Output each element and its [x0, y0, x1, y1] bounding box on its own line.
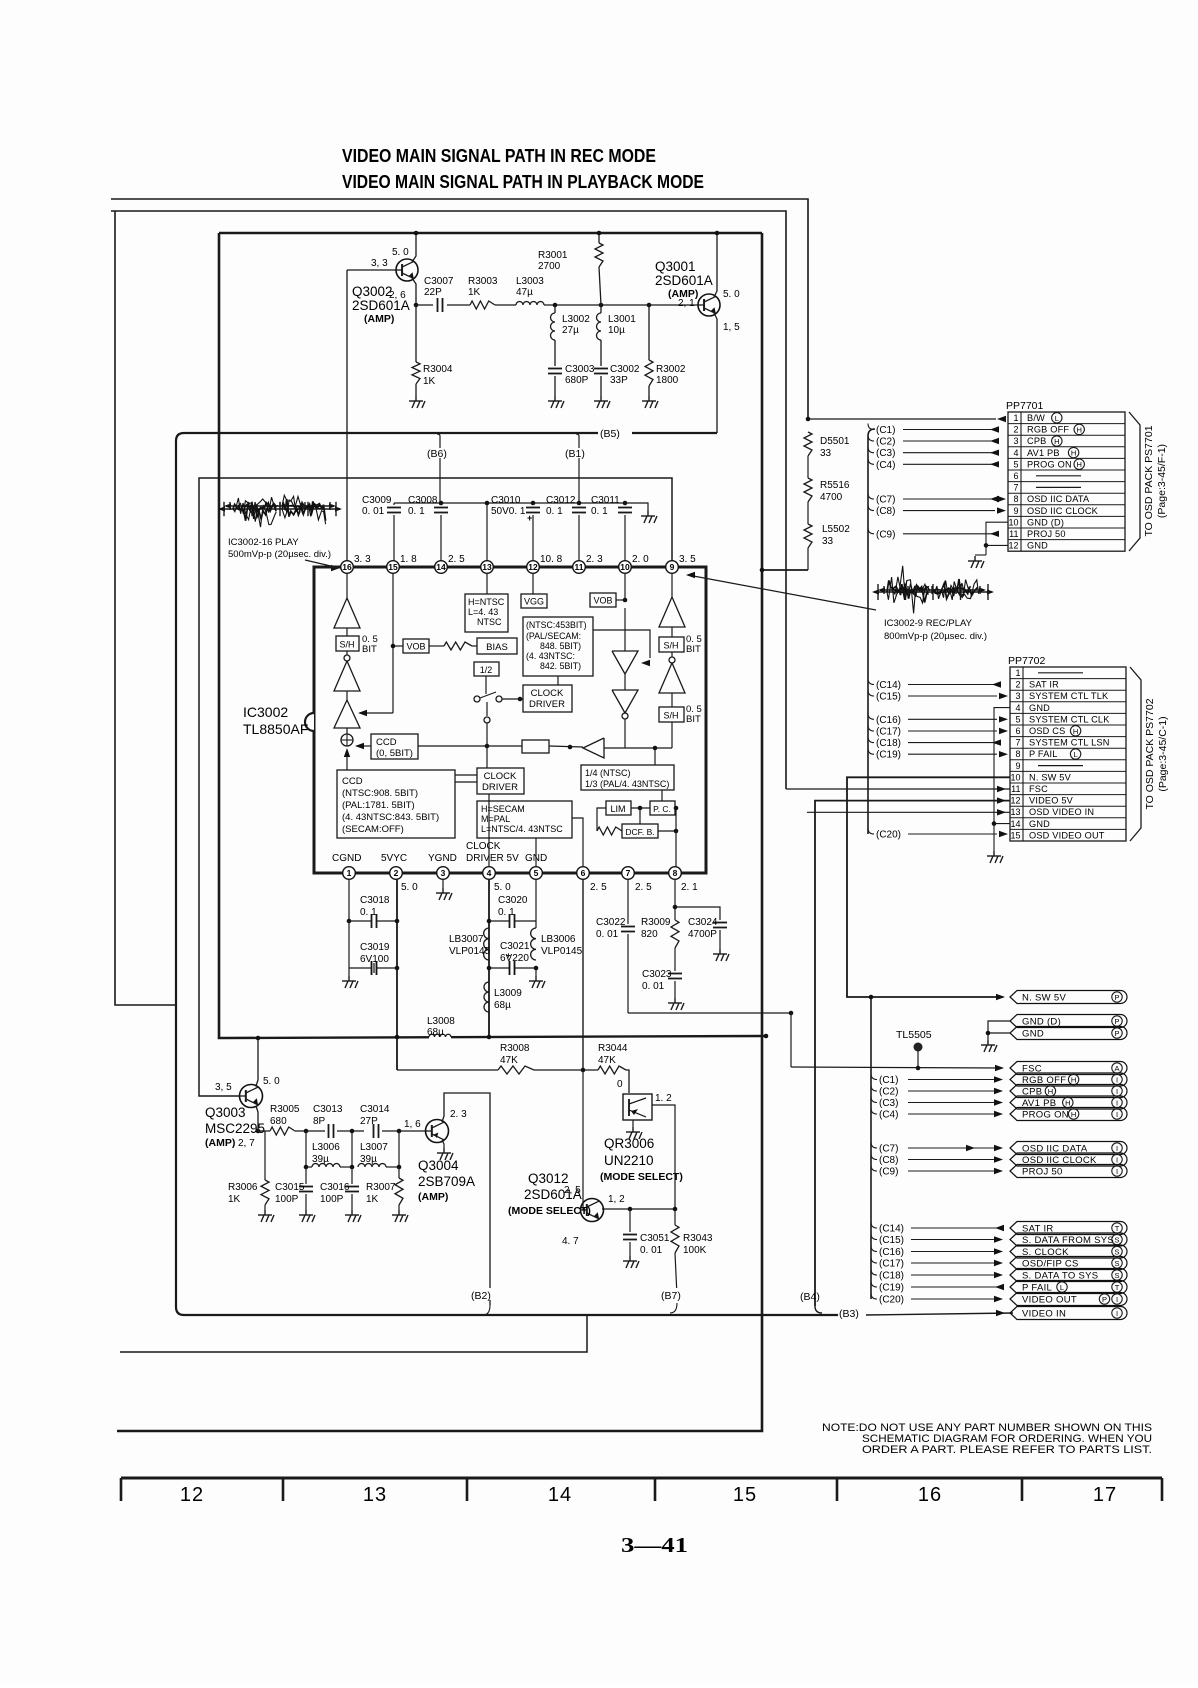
bracket PP7702: [1130, 667, 1141, 841]
wire 453BIT box to inverter arrow: [593, 630, 650, 658]
wire switch to clock driver right: [502, 698, 523, 700]
svg-text:9: 9: [1015, 761, 1020, 771]
wire bottom left rail 1: [120, 1315, 587, 1352]
inductor L3003: [495, 304, 516, 306]
svg-text:1K: 1K: [228, 1194, 241, 1205]
svg-text:H=NTSC: H=NTSC: [468, 597, 505, 607]
svg-text:GND: GND: [1029, 703, 1050, 713]
wire box1 top rail 5V: [219, 232, 762, 235]
svg-text:I: I: [1116, 1144, 1118, 1153]
signal pill OSD IIC CLOCK: [1010, 1153, 1127, 1166]
clock driver box center: [477, 768, 524, 794]
svg-text:PROG ON: PROG ON: [1022, 1110, 1069, 1121]
capacitor C3021 electrolytic: [510, 961, 515, 975]
svg-text:2, 7: 2, 7: [238, 1138, 255, 1149]
svg-text:(C1): (C1): [876, 425, 895, 436]
wire CCD box to clock driver double link: [455, 774, 477, 776]
resistor R3009: [671, 920, 679, 948]
svg-text:2: 2: [394, 868, 399, 878]
inductor L3006: [305, 1131, 307, 1167]
wire C-bus upper: [868, 429, 875, 834]
wire VOB left to pin15 column: [393, 645, 403, 647]
svg-text:I: I: [1116, 1167, 1118, 1176]
svg-text:L: L: [1074, 750, 1078, 759]
CCD parameter box: [337, 770, 455, 838]
svg-text:(SECAM:OFF): (SECAM:OFF): [342, 824, 404, 835]
svg-text:17: 17: [1093, 1484, 1117, 1506]
signal pill S. DATA TO SYS: [1010, 1269, 1127, 1282]
svg-text:10. 8: 10. 8: [540, 554, 563, 565]
svg-text:1/2: 1/2: [480, 665, 493, 675]
svg-text:(AMP): (AMP): [205, 1137, 235, 1149]
svg-text:13: 13: [1010, 807, 1020, 817]
pin 7 IC3002: [622, 867, 635, 880]
svg-text:R3003: R3003: [468, 276, 498, 287]
svg-text:1K: 1K: [468, 287, 481, 298]
ground C3023: [668, 998, 684, 1010]
svg-text:S/H: S/H: [663, 641, 678, 651]
wire box1 left edge down to 5V bus corner: [219, 233, 224, 1038]
wire pin1 column: [348, 879, 350, 921]
svg-text:848. 5BIT): 848. 5BIT): [540, 641, 581, 651]
svg-text:5. 0: 5. 0: [392, 247, 409, 258]
svg-text:C3016: C3016: [320, 1182, 350, 1193]
wire stub (C16) lower: [871, 1246, 877, 1252]
svg-text:P: P: [1114, 993, 1119, 1002]
svg-text:Q3001: Q3001: [655, 259, 696, 274]
pin 15 IC3002: [387, 561, 400, 574]
inductor L3009: [484, 982, 489, 1012]
resistor R3001: [598, 233, 600, 243]
svg-text:2. 3: 2. 3: [586, 554, 603, 565]
svg-text:(C17): (C17): [876, 727, 901, 738]
svg-text:GND: GND: [1029, 819, 1050, 829]
svg-text:Q3003: Q3003: [205, 1105, 246, 1120]
waveform scope trace IC3002-16 PLAY: [220, 508, 340, 510]
svg-text:AV1 PB: AV1 PB: [1027, 448, 1060, 458]
svg-text:11: 11: [1009, 529, 1018, 539]
svg-text:7: 7: [626, 868, 631, 878]
clock driver box right: [523, 685, 572, 712]
svg-text:CCD: CCD: [342, 776, 363, 787]
resistor R3005: [270, 1127, 295, 1135]
svg-text:27µ: 27µ: [562, 325, 579, 336]
svg-text:1. 2: 1. 2: [655, 1093, 672, 1104]
diode D5501: [804, 432, 812, 456]
wire B1 column to pin11: [578, 458, 580, 505]
svg-text:33: 33: [820, 448, 832, 459]
signal pill VIDEO IN: [1010, 1307, 1127, 1320]
svg-text:PP7701: PP7701: [1006, 400, 1044, 412]
svg-text:12: 12: [1008, 541, 1018, 551]
svg-text:820: 820: [641, 929, 658, 940]
svg-text:C3009: C3009: [362, 495, 392, 506]
svg-text:16: 16: [342, 562, 352, 572]
svg-text:T: T: [1115, 1283, 1120, 1292]
svg-text:L3006: L3006: [312, 1142, 340, 1153]
wire box1 right edge 5V down to bottom rail: [117, 233, 762, 1431]
transistor Q3004: [426, 1120, 449, 1143]
wire stub (C20) lower: [871, 1293, 877, 1299]
svg-text:4: 4: [1015, 703, 1020, 713]
wire Q3003 collector to 5V bus: [256, 1038, 258, 1086]
wire Q3012 emitter node: [602, 1208, 675, 1210]
svg-text:13: 13: [363, 1484, 387, 1506]
svg-text:PROJ 50: PROJ 50: [1027, 529, 1066, 539]
svg-text:14: 14: [548, 1484, 572, 1506]
svg-text:OSD IIC DATA: OSD IIC DATA: [1027, 494, 1090, 504]
signal pill PROJ 50: [1010, 1165, 1127, 1178]
inductor L3001: [600, 305, 602, 313]
svg-text:(C14): (C14): [876, 680, 901, 691]
capacitor C3011: [623, 501, 628, 506]
wire pin4 column inside: [488, 845, 490, 867]
ground R3007: [392, 1210, 408, 1222]
wire stub (C4) to PP7701: [868, 458, 874, 464]
CCD (0.5BIT) box: [371, 734, 418, 759]
svg-text:4: 4: [487, 868, 492, 878]
DCF.B box: [622, 824, 658, 838]
svg-text:S/H: S/H: [339, 640, 354, 650]
svg-text:R3004: R3004: [423, 364, 453, 375]
bracket PP7701: [1129, 412, 1140, 551]
resistor R3002: [647, 303, 652, 308]
resistor R3003: [470, 301, 495, 309]
wire Q3003 emitter node: [256, 1106, 270, 1131]
wire Q3004 emitter ground: [442, 1140, 444, 1148]
wire stub (C16) to PP7702: [868, 713, 874, 719]
svg-text:DRIVER 5V: DRIVER 5V: [466, 853, 519, 864]
resistor R3004: [415, 305, 417, 362]
svg-text:1, 6: 1, 6: [404, 1119, 421, 1130]
signal pill S. CLOCK: [1010, 1245, 1127, 1258]
wire stub (C19) to PP7702: [868, 748, 874, 754]
amplifier triangle right 2: [671, 652, 673, 657]
svg-text:(B5): (B5): [600, 428, 620, 440]
svg-text:DCF. B.: DCF. B.: [625, 827, 654, 837]
svg-text:(C8): (C8): [876, 506, 895, 517]
svg-text:R3009: R3009: [641, 917, 671, 928]
VGG box: [521, 594, 547, 608]
node label B7 with hook: [670, 1303, 677, 1313]
wire stub (C17) to PP7702: [868, 725, 874, 731]
svg-text:4. 7: 4. 7: [562, 1236, 579, 1247]
svg-text:L3003: L3003: [516, 276, 544, 287]
wire B W line to PP7701 pin1: [808, 418, 996, 420]
wire node L3002: [544, 304, 601, 306]
svg-text:2. 5: 2. 5: [448, 554, 465, 565]
wire cap bus above IC: [394, 503, 648, 511]
svg-text:(C15): (C15): [879, 1235, 904, 1246]
svg-text:68µ: 68µ: [427, 1027, 444, 1038]
capacitor C3019 electrolytic: [348, 921, 350, 968]
wire pin7 FSC to junction: [628, 1012, 791, 1014]
wire node1: [295, 1130, 325, 1132]
svg-text:(4. 43NTSC:: (4. 43NTSC:: [526, 651, 575, 661]
VOB box right: [590, 593, 616, 607]
svg-text:L3001: L3001: [608, 314, 636, 325]
svg-text:CGND: CGND: [332, 853, 361, 864]
svg-text:H: H: [1071, 1076, 1076, 1085]
svg-text:10: 10: [1010, 772, 1020, 782]
ground R3004: [415, 384, 417, 396]
svg-text:1: 1: [1013, 413, 1018, 423]
pin 16 IC3002: [341, 561, 354, 574]
svg-text:L5502: L5502: [822, 524, 850, 535]
svg-text:680: 680: [270, 1116, 287, 1127]
ground R3006: [258, 1210, 274, 1222]
ground C3016: [345, 1210, 361, 1222]
amplifier triangle 2 left: [346, 651, 348, 655]
svg-text:8: 8: [1015, 749, 1020, 759]
H=SECAM box: [477, 801, 572, 838]
svg-text:33P: 33P: [610, 375, 628, 386]
S/H box left: [336, 636, 359, 651]
svg-text:47µ: 47µ: [516, 287, 533, 298]
svg-text:2. 1: 2. 1: [681, 882, 698, 893]
transistor Q3001: [649, 304, 698, 306]
svg-text:5: 5: [1013, 459, 1018, 469]
amplifier triangle 3 left: [346, 691, 348, 700]
ground GND pills: [981, 1040, 997, 1052]
svg-text:10µ: 10µ: [608, 325, 625, 336]
wire Q3004 collector to B2: [442, 1093, 490, 1305]
svg-text:5. 0: 5. 0: [263, 1076, 280, 1087]
svg-text:10: 10: [620, 562, 630, 572]
svg-text:2. 5: 2. 5: [635, 882, 652, 893]
NTSC 453BIT box: [523, 617, 593, 676]
amplifier triangle left-pointing: [583, 738, 604, 758]
resistor DCF feedback: [597, 808, 606, 831]
svg-text:(C18): (C18): [879, 1271, 904, 1282]
svg-text:2700: 2700: [538, 261, 561, 272]
svg-text:4: 4: [1013, 448, 1018, 458]
ground QR3006: [632, 1120, 634, 1127]
wire B4 hook to video line: [815, 1306, 822, 1313]
capacitor C3008: [439, 501, 444, 506]
node label B1 with hook: [576, 434, 579, 448]
wire triangle input to quarter box: [604, 747, 672, 749]
svg-text:TO OSD PACK PS7701: TO OSD PACK PS7701: [1143, 425, 1155, 536]
svg-text:L=4. 43: L=4. 43: [468, 607, 498, 617]
svg-text:27P: 27P: [360, 1116, 378, 1127]
svg-text:6: 6: [1013, 471, 1018, 481]
svg-text:(C20): (C20): [876, 830, 901, 841]
svg-text:39µ: 39µ: [312, 1154, 329, 1165]
svg-text:842. 5BIT): 842. 5BIT): [540, 661, 581, 671]
svg-text:VIDEO MAIN SIGNAL PATH IN PLAY: VIDEO MAIN SIGNAL PATH IN PLAYBACK MODE: [342, 171, 704, 192]
svg-text:(4. 43NTSC:843. 5BIT): (4. 43NTSC:843. 5BIT): [342, 812, 439, 823]
wire stub (C8) lower: [871, 1154, 877, 1160]
wire B6 column to pin14: [439, 458, 441, 505]
delay rectangle: [522, 740, 549, 753]
svg-text:SYSTEM CTL LSN: SYSTEM CTL LSN: [1029, 738, 1110, 748]
switch circles: [485, 676, 487, 694]
svg-text:(C2): (C2): [876, 437, 895, 448]
svg-text:8P: 8P: [313, 1116, 326, 1127]
svg-text:M=PAL: M=PAL: [481, 814, 510, 824]
svg-text:C3011: C3011: [591, 495, 620, 506]
svg-text:1/3 (PAL/4. 43NTSC): 1/3 (PAL/4. 43NTSC): [585, 779, 669, 789]
svg-text:(B3): (B3): [839, 1308, 859, 1320]
pin 12 IC3002: [527, 561, 540, 574]
svg-text:C3014: C3014: [360, 1104, 390, 1115]
svg-text:(C9): (C9): [876, 529, 895, 540]
svg-text:0. 01: 0. 01: [640, 1245, 663, 1256]
svg-text:(B6): (B6): [427, 448, 447, 460]
ground C3015: [299, 1210, 315, 1222]
svg-text:2SD601A: 2SD601A: [655, 273, 713, 288]
pin 2 IC3002: [390, 867, 403, 880]
svg-text:(C19): (C19): [879, 1283, 904, 1294]
svg-text:R3044: R3044: [598, 1043, 628, 1054]
svg-text:C3010: C3010: [491, 495, 521, 506]
BIAS box: [477, 638, 517, 654]
LIM box: [606, 801, 631, 815]
svg-text:GND: GND: [1022, 1029, 1044, 1040]
svg-text:2. 5: 2. 5: [590, 882, 607, 893]
wire switch center down to clock driver: [486, 702, 488, 716]
resistor R3043: [671, 1225, 679, 1253]
svg-text:6V100: 6V100: [360, 954, 389, 965]
svg-text:MSC2295: MSC2295: [205, 1121, 265, 1136]
svg-text:+: +: [527, 513, 532, 523]
svg-text:IC3002-16 PLAY: IC3002-16 PLAY: [228, 537, 299, 548]
svg-text:(C16): (C16): [876, 715, 901, 726]
svg-text:(C8): (C8): [879, 1155, 898, 1166]
wire stub (C4) lower: [871, 1108, 877, 1114]
wire 5V bus horizontal: [224, 1036, 766, 1038]
svg-text:R3007: R3007: [366, 1182, 396, 1193]
svg-text:BIT: BIT: [686, 714, 701, 725]
svg-text:S: S: [1114, 1271, 1119, 1280]
svg-text:H: H: [1073, 727, 1078, 736]
svg-text:500mVp-p (20µsec. div.): 500mVp-p (20µsec. div.): [228, 549, 331, 560]
pin 4 IC3002: [483, 867, 496, 880]
inductor L3007: [351, 1131, 353, 1167]
capacitor C3007: [416, 304, 433, 306]
capacitor C3023: [674, 948, 676, 971]
waveform scope trace IC3002-9 REC/PLAY: [874, 591, 992, 593]
wire node L3001: [601, 304, 649, 306]
svg-text:N. SW 5V: N. SW 5V: [1022, 993, 1066, 1004]
svg-text:0. 1: 0. 1: [591, 506, 608, 517]
svg-text:(AMP): (AMP): [418, 1191, 448, 1203]
svg-text:5: 5: [534, 868, 539, 878]
svg-text:(B7): (B7): [661, 1290, 681, 1302]
wire CCD box right to clock column: [418, 745, 487, 747]
wire Q3001 emitter to B5 line: [714, 313, 717, 433]
svg-text:P: P: [1102, 1295, 1107, 1304]
wire pin15 to triangle3: [392, 573, 394, 713]
svg-text:3: 3: [1013, 436, 1018, 446]
signal pill OSD/FIP CS: [1010, 1257, 1127, 1270]
svg-text:P. C.: P. C.: [653, 804, 671, 814]
capacitor C3024: [675, 907, 720, 920]
wire stub (C1) to PP7701: [868, 424, 874, 430]
inductor L3008 on 5V bus: [429, 1031, 451, 1042]
svg-text:0: 0: [617, 1079, 623, 1090]
resistor R3007: [395, 1178, 403, 1205]
svg-text:(NTSC:453BIT): (NTSC:453BIT): [526, 620, 587, 630]
svg-text:15: 15: [733, 1484, 757, 1506]
svg-text:L3008: L3008: [427, 1016, 455, 1027]
svg-text:SYSTEM CTL CLK: SYSTEM CTL CLK: [1029, 714, 1110, 724]
capacitor C3012: [577, 501, 582, 506]
svg-text:I: I: [1116, 1155, 1118, 1164]
connector PP7701 table: [1008, 412, 1125, 551]
wire CCD box to adder arrow: [357, 745, 371, 747]
capacitor C3022 on pin7 column: [627, 879, 629, 924]
svg-text:(Page:3-45/F-1): (Page:3-45/F-1): [1156, 444, 1168, 518]
svg-text:C3007: C3007: [424, 276, 454, 287]
svg-text:C3023: C3023: [642, 969, 672, 980]
svg-text:16: 16: [918, 1484, 942, 1506]
node label B3: [838, 1306, 866, 1319]
svg-text:C3012: C3012: [546, 495, 576, 506]
resistor R5516: [804, 478, 812, 502]
wire D5501 net junction: [806, 417, 811, 422]
ruler bar: [121, 1477, 1162, 1480]
wire C-bus lower: [870, 997, 872, 1299]
wire stub (C19) lower: [871, 1281, 877, 1287]
wire R3008 R3044 line: [397, 1070, 629, 1093]
svg-text:0. 01: 0. 01: [596, 929, 619, 940]
capacitor C3051: [629, 1209, 631, 1232]
svg-text:S: S: [1114, 1259, 1119, 1268]
svg-text:(B1): (B1): [565, 448, 585, 460]
svg-text:47K: 47K: [500, 1055, 518, 1066]
wire L3007 right column: [398, 1131, 400, 1167]
capacitor C3003: [554, 340, 556, 366]
svg-text:1K: 1K: [366, 1194, 379, 1205]
signal pill VIDEO OUT: [1010, 1293, 1127, 1306]
capacitor C3010 electrolytic: [531, 501, 536, 506]
svg-text:(C4): (C4): [876, 460, 895, 471]
svg-text:(C4): (C4): [879, 1110, 898, 1121]
svg-text:Q3004: Q3004: [418, 1158, 459, 1173]
svg-text:OSD VIDEO IN: OSD VIDEO IN: [1029, 807, 1094, 817]
svg-text:PROG ON: PROG ON: [1027, 459, 1072, 469]
svg-text:I: I: [1116, 1075, 1118, 1084]
wire stub (C2) lower: [871, 1085, 877, 1091]
wire stub (C20) to PP7702 row15: [868, 828, 874, 834]
wire rect to triangle: [549, 746, 583, 747]
wire quarter box to P.C.: [661, 790, 663, 801]
wire stub (C18) lower: [871, 1269, 877, 1275]
svg-text:CPB: CPB: [1027, 436, 1047, 446]
svg-text:0. 1: 0. 1: [546, 506, 563, 517]
svg-text:SYSTEM CTL TLK: SYSTEM CTL TLK: [1029, 691, 1109, 701]
svg-text:P: P: [1114, 1017, 1119, 1026]
capacitor C3002: [600, 340, 602, 366]
wire clock driver down to pin4: [488, 794, 490, 845]
svg-text:12: 12: [528, 562, 538, 572]
svg-text:100K: 100K: [683, 1245, 707, 1256]
svg-text:3—41: 3—41: [621, 1533, 688, 1557]
ground C3021 right: [535, 968, 537, 976]
svg-text:2SB709A: 2SB709A: [418, 1174, 475, 1189]
svg-text:1K: 1K: [423, 376, 436, 387]
svg-text:LB3007: LB3007: [449, 934, 484, 945]
svg-text:5. 0: 5. 0: [494, 882, 511, 893]
svg-text:(C7): (C7): [876, 495, 895, 506]
svg-text:6V220: 6V220: [500, 953, 529, 964]
svg-text:R3001: R3001: [538, 250, 568, 261]
IC IC3002 body: [314, 567, 706, 873]
svg-text:33: 33: [822, 536, 834, 547]
wire L5502 bottom to 5V rail: [762, 569, 808, 571]
